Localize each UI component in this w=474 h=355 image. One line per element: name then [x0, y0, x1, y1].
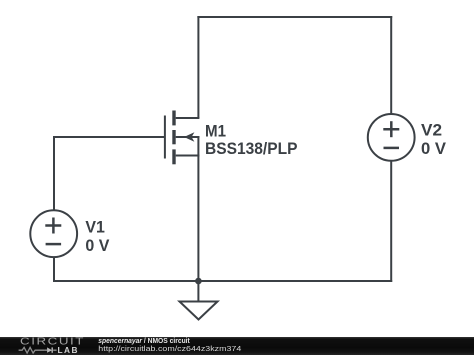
voltage source V1 circle	[30, 210, 77, 257]
voltage source V1 minus sign	[46, 243, 62, 246]
transistor M1 body arrow	[184, 132, 194, 142]
svg-text:LAB: LAB	[58, 345, 80, 355]
svg-text:BSS138/PLP: BSS138/PLP	[205, 139, 298, 158]
wire ground stem	[197, 280, 199, 302]
wire M1 drain vertical	[197, 16, 199, 118]
svg-text:M1: M1	[205, 121, 226, 140]
wire V2 bottom vertical	[390, 161, 392, 282]
svg-text:0 V: 0 V	[421, 139, 447, 158]
wire M1 source horizontal	[176, 155, 200, 157]
wire V2 top vertical	[390, 16, 392, 114]
svg-text:V1: V1	[85, 217, 105, 236]
svg-text:0 V: 0 V	[85, 236, 110, 255]
transistor M1 gate bar	[164, 116, 166, 159]
transistor M1 channel middle dash	[172, 130, 175, 144]
wire M1 drain horizontal	[176, 117, 200, 119]
voltage source V2 minus sign	[384, 147, 400, 150]
node junction dot	[195, 278, 202, 285]
transistor M1 channel bottom dash	[172, 149, 175, 164]
logo resistor zigzag	[19, 347, 45, 353]
transistor M1 channel top dash	[172, 111, 175, 126]
svg-text:V2: V2	[421, 121, 442, 140]
wire bottom rail	[53, 280, 392, 282]
wire V1 bottom vertical	[53, 257, 55, 282]
wire top rail	[197, 16, 392, 18]
wire M1 body horizontal	[176, 136, 200, 138]
wire gate lead	[54, 136, 165, 138]
wire M1 source vertical	[197, 136, 199, 281]
voltage source V1 plus sign	[45, 218, 61, 234]
wire V1 top vertical	[53, 136, 55, 211]
voltage source V2 plus sign	[383, 121, 399, 137]
logo diode	[45, 347, 57, 352]
svg-text:http://circuitlab.com/cz644z3k: http://circuitlab.com/cz644z3kzm374	[98, 344, 241, 353]
ground symbol	[180, 302, 218, 320]
voltage source V2 circle	[368, 114, 415, 161]
